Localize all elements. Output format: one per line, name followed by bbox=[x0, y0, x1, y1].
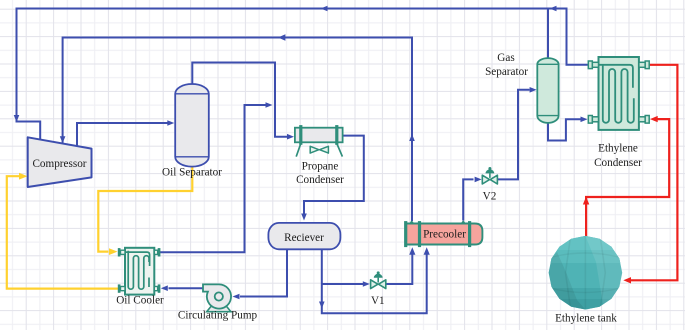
wire receiver drain to precooler right inlet bbox=[319, 247, 430, 313]
wire pump discharge to oil cooler bbox=[161, 285, 203, 291]
wire valve V1 to precooler left inlet bbox=[386, 247, 415, 284]
wire receiver to circulating pump bbox=[233, 248, 288, 299]
svg-text:V1: V1 bbox=[371, 295, 385, 307]
svg-text:Compressor: Compressor bbox=[32, 158, 86, 170]
valve V2 bbox=[482, 167, 497, 203]
wire oil cooler top-right gas return to junction bbox=[160, 102, 273, 252]
wire ethylene tank vapor to condenser (red) bbox=[583, 116, 669, 237]
svg-text:Gas: Gas bbox=[497, 52, 514, 64]
wire precooler top outlet to valve V2 bbox=[463, 177, 481, 221]
svg-text:Propane: Propane bbox=[302, 160, 339, 172]
wire condenser liquid to ethylene tank (red) bbox=[623, 65, 677, 284]
receiver bbox=[268, 223, 340, 249]
wire suction main (condenser top-left to compressor) bbox=[14, 6, 589, 141]
ethylene tank bbox=[546, 233, 626, 325]
svg-text:Oil Separator: Oil Separator bbox=[162, 167, 222, 179]
wire branch to valve V1 bbox=[322, 281, 370, 287]
wire propane condenser outlet to receiver bbox=[301, 136, 364, 221]
oil separator bbox=[162, 84, 222, 178]
svg-text:Condenser: Condenser bbox=[296, 174, 344, 186]
svg-text:Circulating Pump: Circulating Pump bbox=[178, 310, 258, 322]
compressor bbox=[28, 137, 92, 187]
precooler bbox=[404, 220, 482, 247]
wire oil separator top to propane condenser bbox=[192, 63, 294, 140]
ethylene condenser bbox=[588, 57, 649, 169]
oil cooler bbox=[116, 248, 164, 307]
wire precooler top to compressor suction bbox=[60, 34, 415, 221]
wire gas separator top to suction main bbox=[547, 9, 549, 58]
svg-text:Oil Cooler: Oil Cooler bbox=[116, 295, 164, 307]
wire oil cooler to compressor (oil return) bbox=[7, 173, 120, 289]
circulating pump bbox=[178, 284, 258, 321]
svg-text:Ethylene: Ethylene bbox=[598, 142, 638, 154]
wire gas separator bottom to ethylene condenser bbox=[548, 117, 588, 141]
wire oil separator drain to oil cooler (oil) bbox=[98, 163, 192, 256]
wire compressor discharge to oil separator bbox=[77, 120, 174, 146]
valve V1 bbox=[371, 271, 386, 306]
svg-text:Condenser: Condenser bbox=[594, 157, 642, 169]
svg-text:Reciever: Reciever bbox=[284, 232, 324, 244]
svg-text:Precooler: Precooler bbox=[423, 228, 466, 240]
propane condenser bbox=[295, 125, 344, 186]
svg-text:Separator: Separator bbox=[485, 66, 528, 78]
svg-text:Ethylene tank: Ethylene tank bbox=[555, 313, 617, 325]
gas separator bbox=[485, 52, 559, 123]
svg-text:V2: V2 bbox=[483, 191, 497, 203]
wire valve V2 to gas separator bbox=[498, 87, 537, 179]
